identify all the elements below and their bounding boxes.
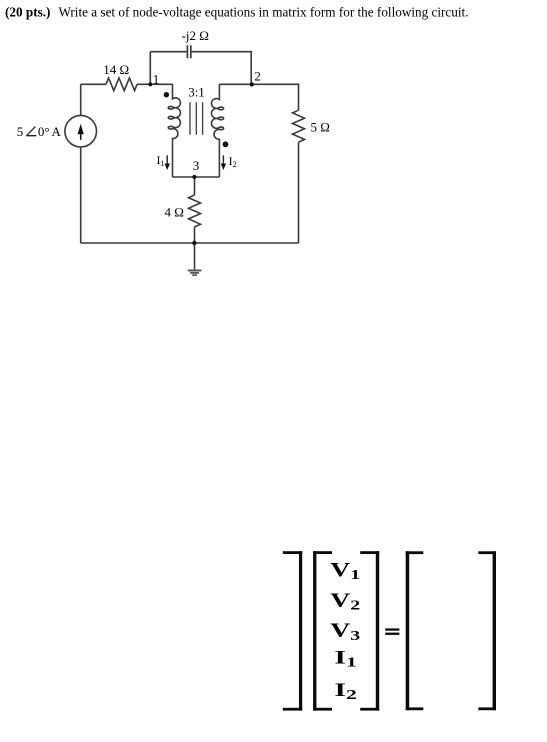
node 3 junction dot [192,175,196,179]
current source arrow [78,124,84,140]
transformer core lines [190,102,203,135]
transformer secondary winding L2 [211,84,223,177]
wire transformer bottom rail [173,176,220,178]
I1 arrow [165,155,170,170]
wire ground stem [194,243,196,270]
node 1 junction dot [148,82,152,86]
svg-text:5 Ω: 5 Ω [311,120,330,135]
wire node3 to 4ohm [194,177,196,195]
transformer primary winding L1 [168,84,180,177]
matrix coefficient right bracket [283,551,302,710]
polarity dot primary [164,92,169,97]
wire bottom rail [81,242,299,244]
svg-text:V3: V3 [330,620,360,643]
wire capacitor top-right [192,52,252,85]
ground symbol [188,270,202,277]
vector left bracket [313,551,332,710]
I2 arrow [221,155,226,170]
wire capacitor top-left [150,51,186,53]
svg-text:I2: I2 [229,154,237,169]
svg-text:4 Ω: 4 Ω [165,205,184,220]
polarity dot secondary [223,141,229,147]
equals sign [385,628,399,634]
svg-text:3:1: 3:1 [188,85,205,100]
rhs left bracket [406,551,424,710]
wire node1 riser to capacitor branch [149,52,151,85]
svg-text:V1: V1 [330,560,360,583]
svg-text:I1: I1 [334,647,356,669]
svg-text:2: 2 [254,68,261,83]
node 2 junction dot [250,82,254,86]
resistor R 4ohm [189,195,201,227]
resistor R 5ohm [293,110,305,142]
wire transformer right top to node2 to 5ohm corner [219,84,298,110]
svg-text:V2: V2 [330,590,360,613]
svg-text:3: 3 [193,158,200,173]
svg-text:I2: I2 [334,680,356,702]
resistor R 14ohm [106,78,137,91]
svg-text:I1: I1 [157,153,165,168]
wire top-left rail left segment [81,83,106,85]
svg-text:5: 5 [17,124,24,139]
svg-text:0°: 0° [38,124,50,139]
svg-text:14 Ω: 14 Ω [103,62,129,77]
current source circle [65,115,97,147]
svg-text:(20 pts.) Write a set of node-: (20 pts.) Write a set of node-voltage eq… [5,4,469,19]
wire 5ohm to bottom rail [298,142,300,243]
vector right bracket [360,551,379,710]
wire 4ohm to bottom rail [194,227,196,243]
bottom rail junction dot [192,241,196,245]
svg-text:1: 1 [153,72,160,87]
svg-text:A: A [52,124,62,139]
svg-text:-j2 Ω: -j2 Ω [182,28,209,43]
wire left rail bottom [80,147,82,243]
capacitor C -j2ohm plates [187,45,190,58]
wire node1 to transformer top-left corner [137,83,173,85]
wire left rail top [80,84,82,115]
rhs right bracket [478,551,496,710]
